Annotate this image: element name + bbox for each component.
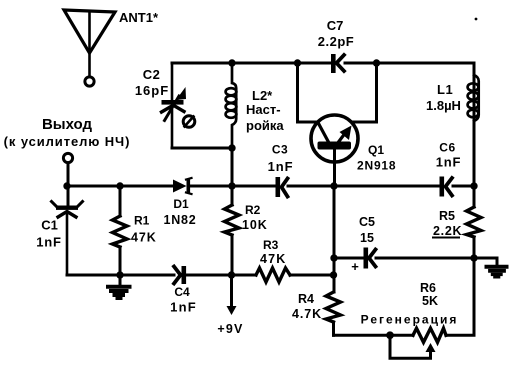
svg-text:Наст-: Наст- <box>246 102 281 117</box>
wire output terminal to rail <box>67 163 70 186</box>
svg-text:R5: R5 <box>439 209 455 223</box>
svg-text:C5: C5 <box>359 215 375 229</box>
wire bottom-left line segment 2 <box>186 274 256 277</box>
svg-text:ройка: ройка <box>246 118 284 133</box>
svg-text:1nF: 1nF <box>170 300 197 315</box>
svg-text:47K: 47K <box>131 231 157 245</box>
junction node top L2 <box>228 59 235 66</box>
svg-text:2.2K: 2.2K <box>433 224 462 238</box>
potentiometer wiper loop <box>390 335 436 358</box>
resistor R2 <box>225 148 240 275</box>
svg-text:R4: R4 <box>298 292 314 306</box>
junction node C5 right <box>470 254 477 261</box>
junction node 9V <box>228 271 235 278</box>
svg-text:2.2pF: 2.2pF <box>318 34 354 49</box>
junction node emitter <box>330 182 337 189</box>
svg-text:L2*: L2* <box>252 88 273 103</box>
svg-text:Выход: Выход <box>42 116 93 133</box>
junction node R3 right <box>330 271 337 278</box>
svg-text:10K: 10K <box>242 218 268 232</box>
svg-text:C3: C3 <box>272 143 288 157</box>
underline 2.2K <box>433 237 459 239</box>
svg-text:R2: R2 <box>245 203 261 217</box>
junction node R1 top <box>116 182 123 189</box>
svg-text:1N82: 1N82 <box>163 213 196 227</box>
capacitor C3 <box>276 177 288 197</box>
svg-text:2N918: 2N918 <box>357 159 396 173</box>
output terminal (Выход) <box>63 153 72 162</box>
trimmer mark (circle-slash) <box>183 116 195 128</box>
wire bottom rail left <box>334 334 414 337</box>
wire main rail segment 4 <box>453 185 474 188</box>
inductor L1 <box>468 75 479 121</box>
ground under R1 <box>108 275 130 299</box>
wire main rail segment 1 <box>67 185 173 188</box>
svg-text:1nF: 1nF <box>436 155 462 170</box>
svg-text:C7: C7 <box>327 18 344 33</box>
wire bottom-left line segment 3 <box>290 274 334 277</box>
svg-text:47K: 47K <box>260 252 287 266</box>
wire C7 left drop to Q1 <box>298 63 318 122</box>
wire bottom rail right <box>446 258 474 335</box>
capacitor C7 <box>331 54 344 73</box>
wire top rail right segment with corner to L1 branch <box>345 63 474 186</box>
ground right <box>474 258 507 277</box>
wire main rail segment 2 <box>190 185 275 188</box>
junction node wiper <box>386 331 394 339</box>
svg-text:R6: R6 <box>420 281 436 295</box>
wire top rail left segment <box>172 62 331 65</box>
svg-text:1nF: 1nF <box>36 235 62 250</box>
diode D1 <box>173 178 192 194</box>
svg-text:4.7K: 4.7K <box>292 307 322 321</box>
svg-text:R1: R1 <box>134 214 150 228</box>
capacitor C4 <box>174 266 186 284</box>
svg-text:1nF: 1nF <box>268 159 294 174</box>
junction node tank bottom <box>228 144 235 151</box>
svg-text:+9V: +9V <box>217 322 243 336</box>
svg-text:L1: L1 <box>437 82 453 97</box>
svg-text:R3: R3 <box>263 238 279 252</box>
svg-text:1.8µH: 1.8µH <box>426 98 461 113</box>
antenna ANT1 <box>64 10 115 86</box>
resistor R1 <box>113 186 128 275</box>
junction node output <box>63 182 70 189</box>
wire C7 right drop to Q1 <box>352 63 377 122</box>
junction node C7 right <box>373 59 380 66</box>
resistor R5 <box>467 186 482 258</box>
junction node rail right <box>470 182 477 189</box>
junction node C5 left <box>330 254 337 261</box>
svg-text:C6: C6 <box>439 141 456 155</box>
junction node R1 bottom <box>116 271 123 278</box>
svg-text:C4: C4 <box>174 285 190 299</box>
svg-text:16pF: 16pF <box>135 83 169 98</box>
junction node R2 top <box>228 182 235 189</box>
capacitor C6 <box>440 177 453 197</box>
+9V arrow <box>227 275 237 315</box>
capacitor C5 <box>334 248 474 269</box>
svg-text:5K: 5K <box>422 294 438 308</box>
wire main rail segment 3 <box>288 185 439 188</box>
wire emitter branch vertical <box>333 186 336 292</box>
capacitor C2 (variable) <box>162 63 187 148</box>
resistor R4 <box>326 292 341 335</box>
svg-text:C2: C2 <box>143 67 161 82</box>
svg-text:+: + <box>351 259 359 274</box>
potentiometer R6 <box>413 328 446 342</box>
svg-text:ANT1*: ANT1* <box>119 10 159 25</box>
wire Q1 emitter down <box>333 149 336 186</box>
resistor R3 <box>256 268 290 282</box>
svg-text:D1: D1 <box>173 197 189 211</box>
junction node C7 left <box>294 59 301 66</box>
speck <box>475 18 478 21</box>
wire bottom-left line segment 1 <box>67 274 174 277</box>
wire tank bottom <box>172 147 232 150</box>
svg-text:C1: C1 <box>41 218 58 233</box>
inductor L2 <box>226 63 237 186</box>
capacitor C1 <box>52 163 83 275</box>
transistor Q1 <box>311 115 358 162</box>
svg-text:(к усилителю НЧ): (к усилителю НЧ) <box>4 134 131 149</box>
svg-text:Q1: Q1 <box>368 143 384 157</box>
svg-text:15: 15 <box>360 231 374 245</box>
svg-text:Регенерация: Регенерация <box>361 313 459 327</box>
